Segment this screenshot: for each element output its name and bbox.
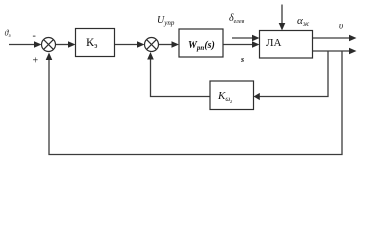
svg-text:ЛА: ЛА xyxy=(266,37,281,49)
wire: outer feedback tap down right side xyxy=(49,51,342,155)
block K_e xyxy=(76,29,115,57)
wire: block K to summer 2 xyxy=(115,44,140,46)
arrowhead vertical into LA top xyxy=(279,23,286,31)
wire: disturbance arrow into LA left xyxy=(232,37,254,39)
wire: inner feedback from K_wz to summer 2 xyxy=(151,58,211,97)
wire: summer 2 to block W xyxy=(159,44,175,46)
arrowhead inner feedback up into summer 2 xyxy=(147,52,154,60)
svg-text:ϑз: ϑз xyxy=(5,29,11,40)
wire: vertical disturbance arrow into LA top xyxy=(281,5,283,26)
arrowhead main into LA xyxy=(252,41,260,48)
wire: top output line xyxy=(313,37,352,39)
arrowhead into block K xyxy=(68,41,76,48)
svg-text:υ: υ xyxy=(339,21,343,31)
arrowhead into summer 1 xyxy=(34,41,42,48)
svg-text:-: - xyxy=(33,31,36,42)
block LA xyxy=(260,31,313,59)
arrowhead outer feedback up into summer 1 xyxy=(46,53,53,61)
wire: inner feedback tap vertical xyxy=(259,51,328,97)
block K_wz xyxy=(210,81,254,110)
wire: summer 1 to block K xyxy=(56,44,71,46)
arrowhead into K_wz right side xyxy=(254,93,260,100)
summer 2 (circle with X) xyxy=(145,38,159,52)
svg-text:δелев: δелев xyxy=(229,13,245,25)
arrowhead bottom output xyxy=(349,48,357,55)
summer 1 (circle with X) xyxy=(42,38,56,52)
wire: block W to block LA xyxy=(223,44,254,46)
svg-text:s: s xyxy=(240,55,244,64)
svg-text:Uупр: Uупр xyxy=(157,15,175,27)
block W_rp(s) xyxy=(179,29,223,57)
arrowhead into block W xyxy=(172,41,180,48)
wire: bottom output line xyxy=(313,50,352,52)
wire: input line to summer 1 xyxy=(9,44,36,46)
arrowhead disturbance into LA xyxy=(252,35,260,42)
svg-text:αж: αж xyxy=(297,15,310,28)
svg-text:+: + xyxy=(33,56,39,67)
arrowhead into summer 2 xyxy=(137,41,145,48)
arrowhead top output xyxy=(349,35,357,42)
